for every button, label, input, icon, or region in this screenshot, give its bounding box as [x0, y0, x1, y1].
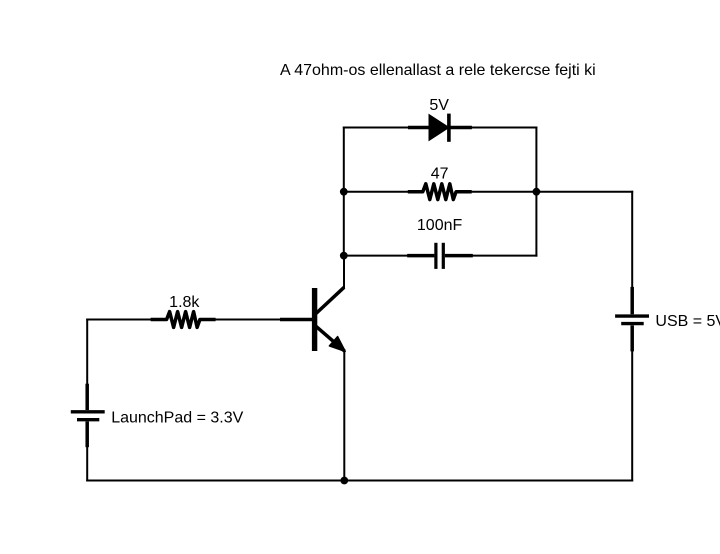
- resistor R2 1.8k: [151, 312, 216, 328]
- wire right branch vertical: [535, 128, 537, 256]
- wire collector: [343, 256, 345, 288]
- wire to USB branch: [536, 191, 632, 193]
- junction dot node B: [533, 188, 541, 196]
- wire diode row right: [471, 127, 537, 129]
- wire base left segment: [87, 319, 151, 321]
- svg-text:5V: 5V: [429, 97, 449, 114]
- svg-text:47: 47: [431, 166, 449, 183]
- svg-text:A 47ohm-os ellenallast a rele: A 47ohm-os ellenallast a rele tekercse f…: [280, 62, 596, 79]
- wire USB branch upper: [631, 192, 633, 287]
- wire capacitor row right: [472, 255, 537, 257]
- wire left branch vertical: [343, 128, 345, 256]
- wire left branch lower: [86, 447, 88, 480]
- wire resistor row right: [471, 191, 537, 193]
- svg-text:LaunchPad = 3.3V: LaunchPad = 3.3V: [111, 410, 243, 427]
- svg-text:1.8k: 1.8k: [169, 294, 200, 311]
- wire resistor row left: [344, 191, 409, 193]
- battery B2 USB: [615, 287, 649, 352]
- resistor R1 47: [408, 184, 472, 200]
- battery B1 LaunchPad: [71, 384, 105, 448]
- wire USB branch lower: [631, 351, 633, 480]
- wire left branch upper: [86, 320, 88, 384]
- transistor Q1: [280, 287, 345, 351]
- svg-text:100nF: 100nF: [417, 217, 463, 234]
- diode D1: [408, 114, 472, 142]
- svg-text:USB = 5V: USB = 5V: [655, 313, 720, 330]
- wire diode row left: [344, 127, 409, 129]
- junction dot node C: [340, 252, 348, 260]
- capacitor C1: [407, 243, 473, 269]
- wire capacitor row left: [344, 255, 408, 257]
- wire emitter: [343, 352, 345, 481]
- wire base right segment: [216, 319, 280, 321]
- wire bottom: [87, 480, 632, 482]
- junction dot node D: [340, 477, 348, 485]
- junction dot node A: [340, 188, 348, 196]
